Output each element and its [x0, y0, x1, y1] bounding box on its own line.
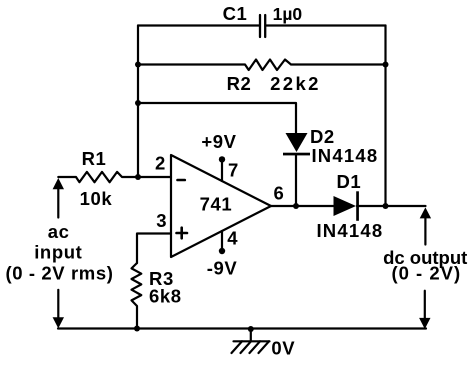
junction node output D2 — [293, 203, 299, 209]
wire output apex to D1 — [271, 205, 334, 207]
svg-text:D2: D2 — [310, 126, 335, 147]
wire left vertical — [137, 26, 139, 178]
junction node R2 left — [135, 62, 141, 68]
svg-text:D1: D1 — [336, 171, 361, 192]
resistor R2 — [138, 60, 386, 71]
svg-text:22k2: 22k2 — [270, 73, 321, 94]
input arrow up head — [53, 178, 64, 189]
junction node R2 right — [383, 62, 389, 68]
ground symbol bar — [234, 340, 270, 342]
pin 7 stub — [221, 159, 223, 181]
svg-text:0V: 0V — [271, 338, 295, 359]
junction node ground symbol — [248, 326, 254, 332]
svg-text:IN4148: IN4148 — [311, 145, 378, 166]
op-amp minus input sign — [178, 179, 185, 182]
svg-text:+9V: +9V — [201, 131, 236, 152]
ground symbol hatch 1 — [232, 341, 243, 353]
svg-text:C1: C1 — [223, 3, 248, 24]
wire D1 to output arrow — [357, 205, 426, 207]
ground symbol stub — [250, 329, 252, 342]
svg-text:741: 741 — [200, 194, 233, 215]
ground symbol hatch 4 — [259, 341, 270, 353]
wire top to C1 left — [138, 24, 259, 26]
svg-text:4: 4 — [227, 228, 238, 249]
svg-text:-9V: -9V — [207, 258, 238, 279]
svg-text:R2: R2 — [227, 73, 252, 94]
input arrow down shaft — [57, 290, 59, 318]
svg-text:input: input — [34, 242, 82, 263]
ground symbol hatch 2 — [241, 341, 252, 353]
pin 4 stub — [221, 231, 223, 251]
input arrow up shaft — [57, 189, 59, 218]
junction node R3 ground — [134, 326, 140, 332]
capacitor C1 — [260, 15, 265, 37]
svg-text:(0 - 2V rms): (0 - 2V rms) — [6, 262, 114, 283]
resistor R1 — [58, 172, 171, 182]
op-amp U1 741 triangle — [171, 155, 271, 257]
svg-text:7: 7 — [228, 160, 239, 181]
svg-text:6: 6 — [274, 183, 285, 204]
junction node feedback left — [135, 100, 141, 106]
svg-text:(0 - 2V): (0 - 2V) — [391, 263, 461, 284]
svg-text:R1: R1 — [82, 148, 107, 169]
svg-text:IN4148: IN4148 — [316, 220, 383, 241]
input arrow down head — [53, 317, 64, 328]
svg-text:3: 3 — [156, 210, 167, 231]
wire right vertical — [384, 26, 386, 207]
wire D2 cathode to output node — [295, 155, 297, 206]
output arrow down shaft — [424, 291, 426, 319]
diode D1 — [334, 196, 357, 216]
diode D2 — [286, 133, 308, 152]
output arrow down head — [419, 318, 430, 329]
op-amp plus input sign — [177, 232, 188, 235]
svg-text:6k8: 6k8 — [149, 285, 182, 306]
svg-text:2: 2 — [155, 153, 166, 174]
svg-text:1µ0: 1µ0 — [273, 4, 303, 24]
wire C1 right to top corner — [266, 24, 386, 26]
wire ground rail — [58, 327, 426, 329]
junction node output right — [383, 203, 389, 209]
output arrow up shaft — [424, 217, 426, 245]
junction node pin2 — [135, 174, 141, 180]
svg-text:10k: 10k — [80, 188, 113, 209]
pin7 supply dot — [219, 156, 225, 162]
svg-text:ac: ac — [48, 221, 70, 242]
pin4 supply dot — [219, 248, 225, 254]
output arrow up head — [420, 207, 431, 218]
resistor R3 — [132, 263, 142, 329]
wire feedback — [138, 103, 296, 133]
wire pin3 — [137, 234, 171, 264]
ground symbol hatch 3 — [250, 341, 261, 353]
